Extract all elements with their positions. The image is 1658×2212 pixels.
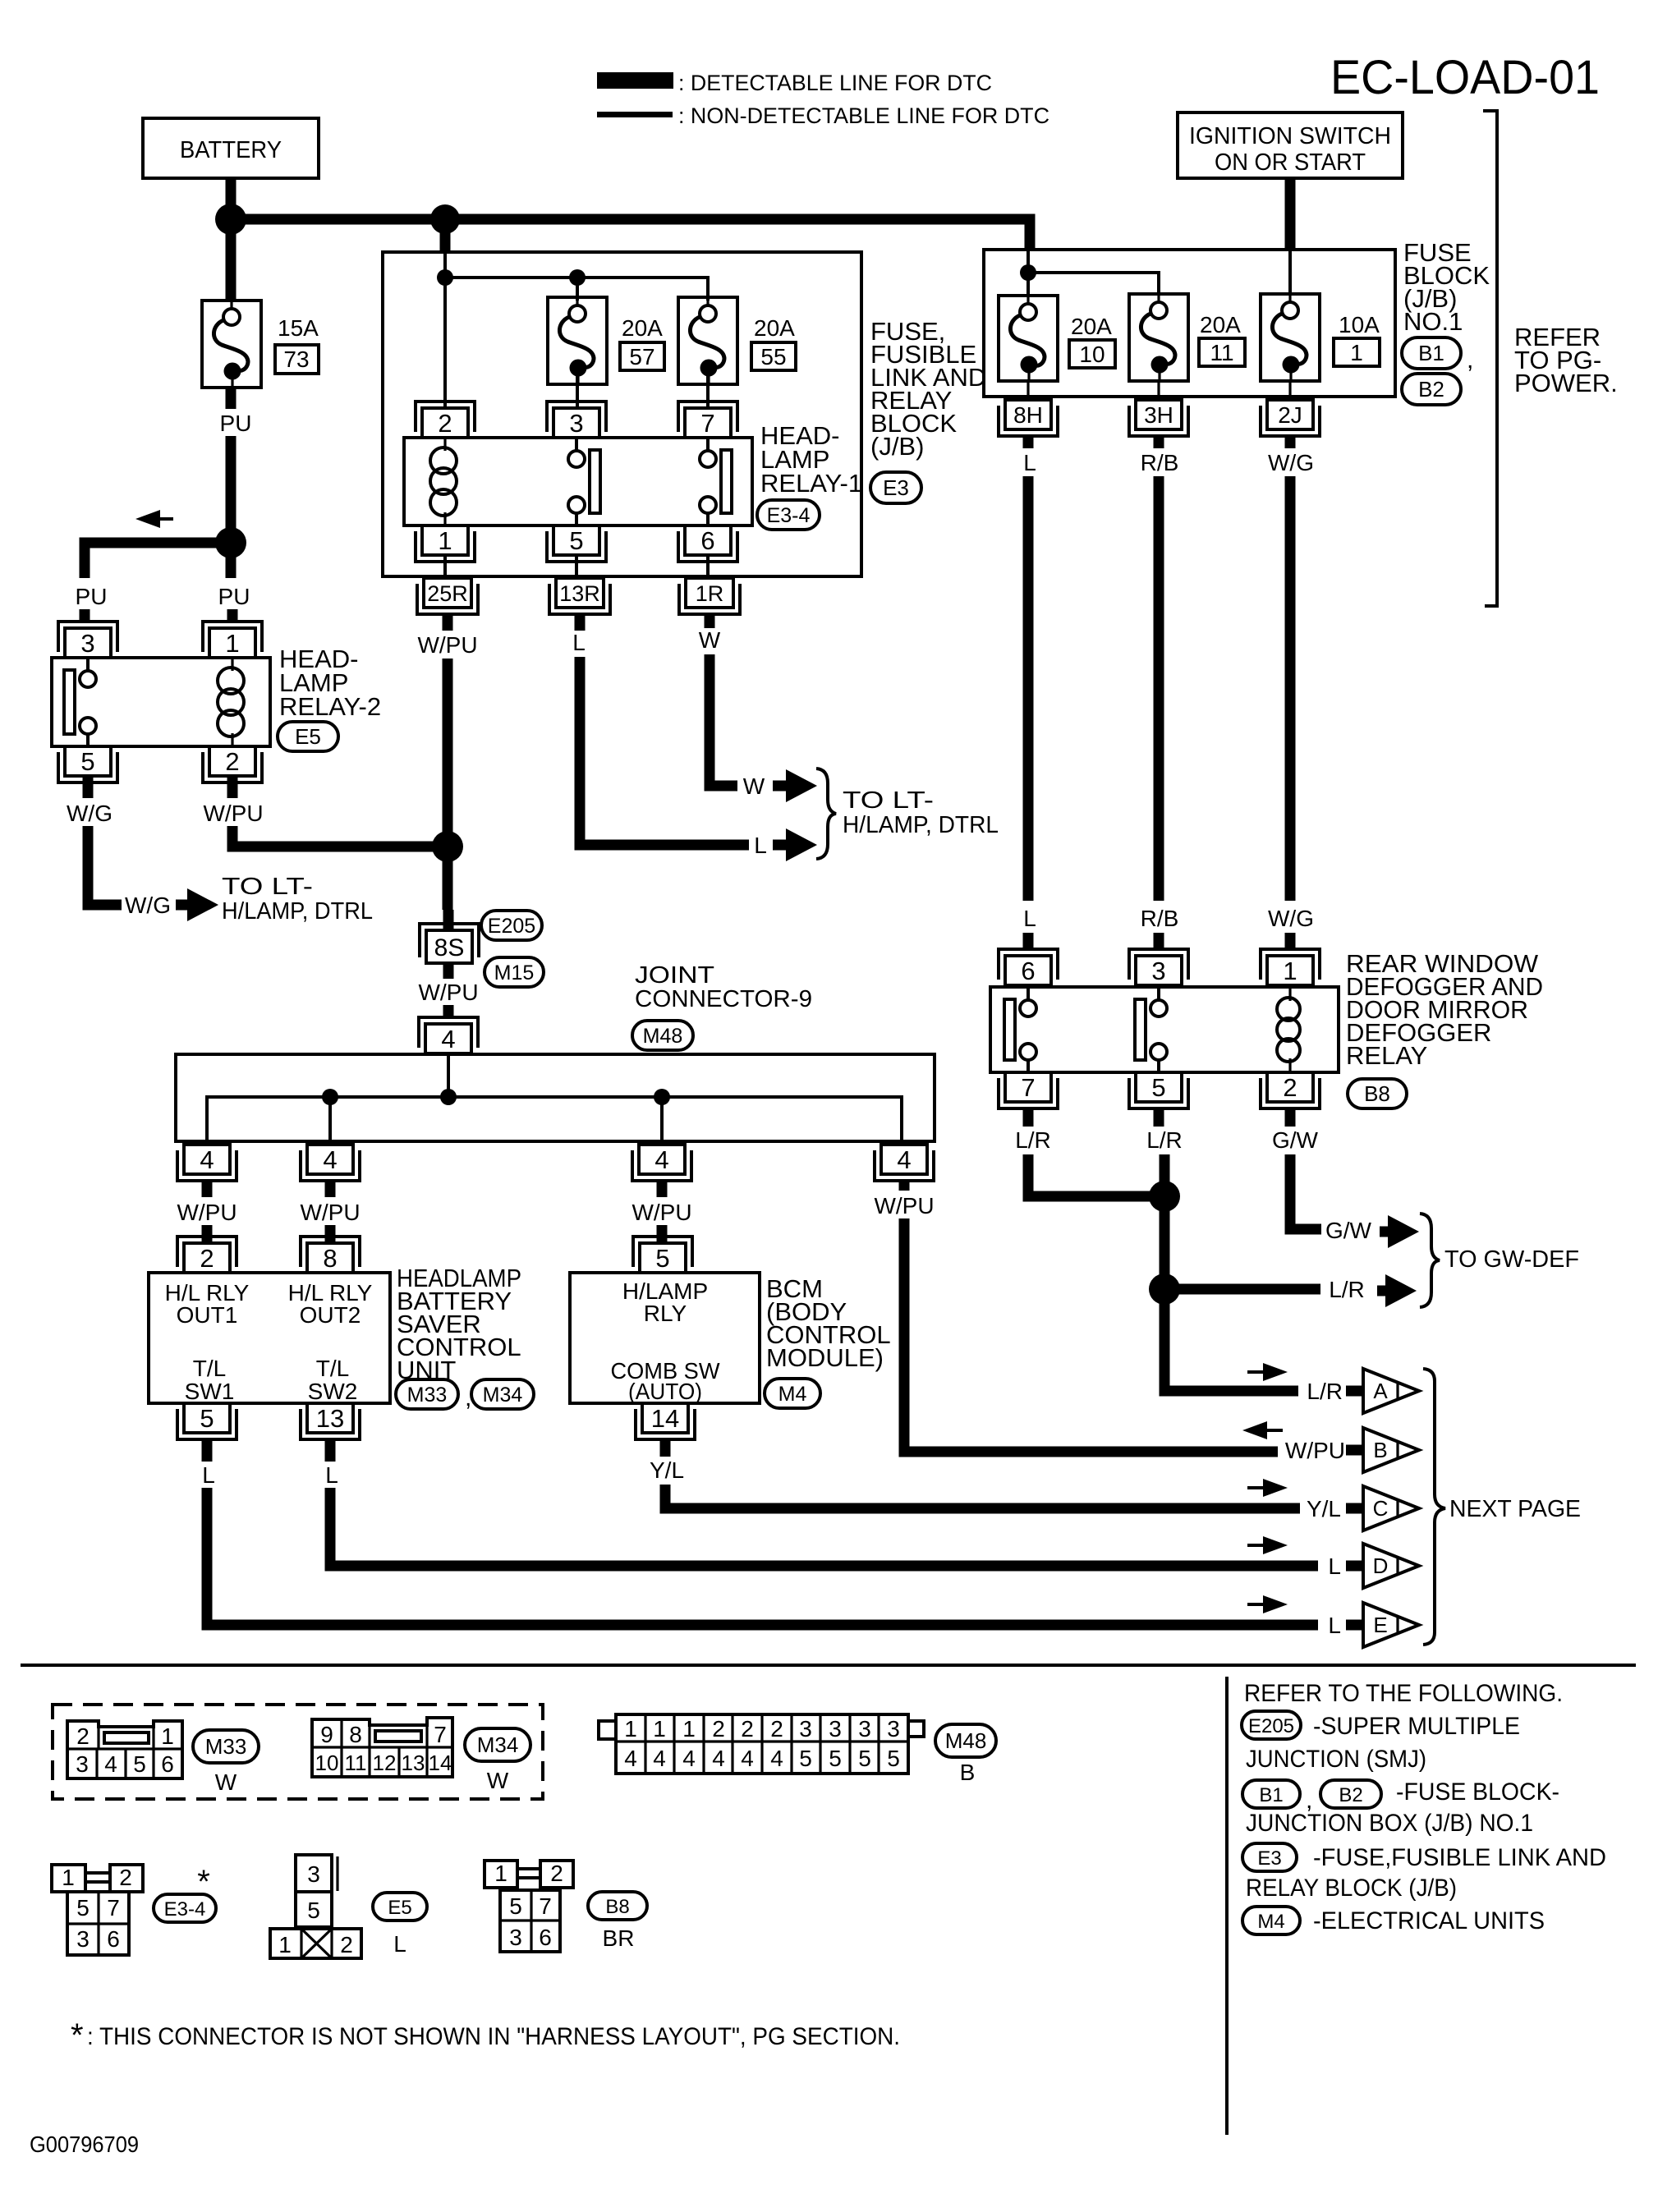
wire tap2 to pin 8 bbox=[325, 1181, 336, 1197]
connector view E3-4 bbox=[52, 1865, 85, 1892]
connector ref M33 view bbox=[193, 1730, 259, 1763]
svg-text:8: 8 bbox=[349, 1722, 362, 1747]
svg-text:SW2: SW2 bbox=[308, 1379, 358, 1404]
svg-text:E5: E5 bbox=[388, 1897, 411, 1919]
connector ref E3-4 bbox=[757, 500, 820, 530]
svg-text:-FUSE BLOCK-: -FUSE BLOCK- bbox=[1396, 1778, 1559, 1806]
svg-text:4: 4 bbox=[741, 1746, 754, 1771]
svg-text:5: 5 bbox=[829, 1746, 842, 1771]
svg-text:4: 4 bbox=[712, 1746, 725, 1771]
svg-text:E3: E3 bbox=[883, 475, 909, 500]
pin 5 defogger relay bbox=[1136, 1072, 1182, 1102]
svg-text:B1: B1 bbox=[1259, 1784, 1283, 1806]
pin 13 battery saver bbox=[307, 1403, 353, 1433]
svg-text:1R: 1R bbox=[696, 581, 724, 606]
svg-text:(J/B): (J/B) bbox=[870, 432, 924, 461]
wire L/R to arrow A bbox=[1164, 1388, 1298, 1391]
svg-text:2: 2 bbox=[200, 1244, 214, 1273]
svg-text:5: 5 bbox=[509, 1893, 522, 1919]
svg-text:4: 4 bbox=[441, 1025, 455, 1053]
brace TO LT-H/LAMP bbox=[816, 769, 836, 859]
svg-text:10A: 10A bbox=[1339, 312, 1380, 337]
svg-text:W: W bbox=[699, 627, 721, 653]
svg-text:W: W bbox=[215, 1769, 237, 1795]
wire tap4 W/PU to arrow B bbox=[899, 1181, 910, 1191]
svg-text:5: 5 bbox=[569, 526, 583, 555]
svg-text:B: B bbox=[1373, 1438, 1387, 1462]
svg-text:IGNITION SWITCH: IGNITION SWITCH bbox=[1189, 123, 1391, 149]
svg-text:OUT1: OUT1 bbox=[177, 1302, 238, 1328]
svg-text:2: 2 bbox=[76, 1723, 90, 1749]
connector view M48 bbox=[616, 1714, 908, 1774]
svg-text:CONNECTOR-9: CONNECTOR-9 bbox=[635, 986, 812, 1012]
wire W/PU to 8S bbox=[443, 910, 454, 930]
tap pin 4 out2 bbox=[307, 1145, 353, 1174]
svg-text:6: 6 bbox=[539, 1925, 552, 1950]
connector ref M34 unit bbox=[471, 1379, 534, 1409]
svg-text:L: L bbox=[202, 1462, 215, 1488]
connector ref B1 footer bbox=[1242, 1780, 1300, 1808]
svg-text:ON OR START: ON OR START bbox=[1215, 149, 1366, 176]
svg-text:5: 5 bbox=[76, 1895, 90, 1921]
svg-text:R/B: R/B bbox=[1141, 450, 1179, 475]
connector view M33 bbox=[67, 1721, 182, 1778]
svg-text:1: 1 bbox=[494, 1861, 508, 1886]
svg-text:: DETECTABLE LINE FOR DTC: : DETECTABLE LINE FOR DTC bbox=[678, 71, 992, 95]
pin 5 bcm bbox=[640, 1243, 686, 1273]
bracket refer to pg-power bbox=[1483, 111, 1497, 606]
svg-text:BR: BR bbox=[603, 1925, 635, 1951]
pin 13R bbox=[556, 578, 604, 608]
svg-text:BATTERY: BATTERY bbox=[180, 137, 282, 163]
bracket NEXT PAGE bbox=[1423, 1369, 1445, 1645]
svg-text:5: 5 bbox=[307, 1898, 320, 1923]
svg-text:Y/L: Y/L bbox=[650, 1457, 684, 1483]
svg-text:1: 1 bbox=[1283, 957, 1297, 985]
wire main feed bus bbox=[231, 219, 1030, 250]
pin 14 bcm bbox=[642, 1403, 688, 1433]
wire L vertical bbox=[1023, 476, 1034, 901]
pin 1 defogger relay bbox=[1267, 956, 1313, 985]
fuse F1 10A bbox=[1261, 294, 1320, 381]
svg-text:W/PU: W/PU bbox=[417, 632, 477, 658]
svg-text:2: 2 bbox=[119, 1865, 132, 1890]
svg-text:4: 4 bbox=[654, 1145, 668, 1174]
svg-text:E3-4: E3-4 bbox=[767, 504, 811, 527]
wire junction to E3 block bbox=[440, 219, 451, 252]
junction dot relay-2 branch bbox=[215, 527, 246, 558]
relay-2 contact bbox=[80, 671, 96, 687]
stub 1R down bbox=[705, 614, 715, 628]
dashed box M33 M34 bbox=[53, 1705, 543, 1799]
headlamp relay-1 box bbox=[404, 438, 752, 525]
legend: non-detectable line sample bbox=[597, 112, 673, 117]
svg-text:W/PU: W/PU bbox=[1285, 1438, 1345, 1463]
wire L/R pin7 to junction bbox=[1028, 1154, 1164, 1196]
svg-text:13R: 13R bbox=[559, 581, 600, 606]
svg-text:8S: 8S bbox=[434, 934, 465, 961]
connector ref E205 footer bbox=[1242, 1711, 1301, 1739]
connector view B8 bbox=[485, 1861, 517, 1888]
small arrow above C bbox=[1247, 1486, 1266, 1489]
page connector C bbox=[1346, 1503, 1362, 1514]
joint connector internal bus bbox=[207, 1053, 902, 1145]
svg-text:5: 5 bbox=[887, 1746, 900, 1771]
svg-text:1: 1 bbox=[278, 1932, 292, 1957]
page connector D bbox=[1346, 1561, 1362, 1572]
wire inside E3 top bus bbox=[445, 252, 708, 301]
svg-text:SW1: SW1 bbox=[185, 1379, 235, 1404]
stub PU to pin 3 bbox=[80, 609, 90, 622]
fuse number box 57 bbox=[620, 342, 664, 370]
svg-text:L: L bbox=[1023, 906, 1036, 931]
svg-text:6: 6 bbox=[1021, 957, 1035, 985]
junction dot E3 bus mid bbox=[569, 269, 586, 286]
svg-text:15A: 15A bbox=[278, 315, 319, 341]
connector ref B2 bbox=[1402, 374, 1461, 405]
wire G/W to arrow bbox=[1290, 1154, 1321, 1229]
pin 5 of relay-2 bbox=[65, 746, 111, 776]
defogger relay contact 3-5 bbox=[1150, 1000, 1167, 1017]
svg-text:13: 13 bbox=[402, 1751, 425, 1775]
svg-text:1: 1 bbox=[62, 1865, 75, 1890]
wire to relay-2 pin 1 bbox=[226, 543, 237, 578]
svg-text:4: 4 bbox=[682, 1746, 696, 1771]
connector ref E5 bbox=[278, 722, 338, 751]
fuse number box 73 bbox=[275, 345, 319, 374]
small arrow above B bbox=[1264, 1429, 1283, 1432]
svg-text:4: 4 bbox=[897, 1145, 911, 1174]
lead fuse11 to 3H bbox=[1157, 381, 1160, 400]
svg-text:W/PU: W/PU bbox=[203, 801, 263, 826]
svg-text:5: 5 bbox=[858, 1746, 871, 1771]
fuse F10 20A bbox=[999, 296, 1058, 381]
pin 8H bbox=[1005, 400, 1051, 429]
svg-text:B2: B2 bbox=[1418, 377, 1444, 402]
svg-text:RELAY BLOCK (J/B): RELAY BLOCK (J/B) bbox=[1246, 1875, 1457, 1902]
svg-text:W/PU: W/PU bbox=[300, 1200, 360, 1225]
svg-text:A: A bbox=[1373, 1379, 1388, 1403]
fuse fusible link and relay block box E3 bbox=[383, 252, 861, 576]
connector view M34 bbox=[312, 1718, 452, 1777]
svg-text:W/PU: W/PU bbox=[632, 1200, 691, 1225]
stub 3H down bbox=[1154, 436, 1164, 448]
svg-text:3: 3 bbox=[887, 1716, 900, 1742]
svg-text:3: 3 bbox=[829, 1716, 842, 1742]
svg-text:W/G: W/G bbox=[67, 801, 113, 826]
pin 5 of relay-1 bbox=[553, 525, 599, 555]
relay-1 coil bbox=[443, 438, 446, 451]
pin 3 of relay-1 bbox=[553, 408, 599, 438]
svg-text:PU: PU bbox=[218, 584, 250, 609]
svg-text:7: 7 bbox=[700, 409, 714, 438]
svg-text:EC-LOAD-01: EC-LOAD-01 bbox=[1330, 51, 1600, 104]
direction arrow left above relay-2 branch bbox=[157, 517, 173, 521]
defogger relay coil bbox=[1288, 987, 1291, 1001]
small arrow above E bbox=[1247, 1603, 1266, 1606]
separator line bbox=[21, 1664, 1636, 1667]
svg-text:E5: E5 bbox=[295, 724, 321, 749]
arrow L/R to GW-DEF bbox=[1377, 1286, 1387, 1296]
fuse F11 20A bbox=[1129, 294, 1188, 381]
svg-text:W/G: W/G bbox=[1268, 450, 1314, 475]
svg-text:10: 10 bbox=[1079, 342, 1105, 367]
pin 2 defogger relay bbox=[1267, 1072, 1313, 1102]
svg-text:RELAY-1: RELAY-1 bbox=[760, 469, 862, 498]
svg-text:REFER TO THE FOLLOWING.: REFER TO THE FOLLOWING. bbox=[1244, 1680, 1563, 1707]
svg-text:T/L: T/L bbox=[193, 1356, 226, 1381]
svg-text:4: 4 bbox=[323, 1145, 337, 1174]
pin 1 of relay-2 bbox=[209, 628, 255, 658]
connector ref B2 footer bbox=[1320, 1780, 1381, 1808]
wire L to arrow D bbox=[330, 1488, 1318, 1566]
svg-text:3: 3 bbox=[569, 409, 583, 438]
fuse number box 11 bbox=[1199, 338, 1245, 366]
svg-text:6: 6 bbox=[700, 526, 714, 555]
svg-text:3: 3 bbox=[1151, 957, 1165, 985]
svg-text:M34: M34 bbox=[483, 1384, 523, 1407]
connector ref B1 bbox=[1402, 337, 1461, 369]
pin 3H bbox=[1136, 400, 1182, 429]
junction dot L/R upper bbox=[1149, 1181, 1180, 1212]
fuse block J/B no.1 box bbox=[984, 250, 1395, 397]
svg-text:7: 7 bbox=[434, 1722, 447, 1747]
svg-text:M33: M33 bbox=[205, 1734, 247, 1759]
pin 2 battery saver bbox=[184, 1243, 230, 1273]
fuse number box 55 bbox=[751, 342, 796, 370]
svg-text:12: 12 bbox=[373, 1751, 397, 1775]
svg-text:M48: M48 bbox=[945, 1728, 987, 1753]
svg-text:7: 7 bbox=[539, 1893, 552, 1919]
headlamp relay-2 box bbox=[52, 658, 270, 746]
svg-text:2: 2 bbox=[438, 409, 452, 438]
svg-text:25R: 25R bbox=[427, 581, 468, 606]
svg-text:6: 6 bbox=[107, 1926, 120, 1952]
footer vertical divider bbox=[1225, 1677, 1229, 2135]
svg-text:10: 10 bbox=[315, 1751, 339, 1775]
svg-text:M4: M4 bbox=[778, 1383, 807, 1406]
svg-text:E3: E3 bbox=[1257, 1847, 1281, 1870]
svg-text:E205: E205 bbox=[1248, 1715, 1294, 1737]
wire battery junction to fuse 73 bbox=[226, 219, 237, 301]
small arrow above A bbox=[1247, 1370, 1266, 1374]
svg-text:: NON-DETECTABLE LINE FOR DTC: : NON-DETECTABLE LINE FOR DTC bbox=[678, 103, 1049, 128]
pin 1 of relay-1 bbox=[422, 525, 468, 555]
connector ref M4 bbox=[765, 1379, 820, 1408]
svg-text:E3-4: E3-4 bbox=[164, 1898, 206, 1921]
svg-text:-SUPER MULTIPLE: -SUPER MULTIPLE bbox=[1313, 1713, 1520, 1740]
wire tap3 to pin 5 bbox=[657, 1181, 668, 1197]
bcm box bbox=[570, 1273, 760, 1403]
svg-text:55: 55 bbox=[760, 344, 786, 369]
svg-text:B8: B8 bbox=[1364, 1081, 1390, 1106]
pin 8 battery saver bbox=[307, 1243, 353, 1273]
fuse number box 10 bbox=[1069, 340, 1115, 368]
svg-text:H/LAMP, DTRL: H/LAMP, DTRL bbox=[222, 898, 373, 925]
stub pin1 to 25R bbox=[443, 555, 447, 578]
joint connector-9 box bbox=[176, 1054, 935, 1141]
svg-text:2: 2 bbox=[712, 1716, 725, 1742]
svg-text:2: 2 bbox=[1283, 1073, 1297, 1102]
svg-text:W/G: W/G bbox=[1268, 906, 1314, 931]
wire fuse57 to pin 3 bbox=[576, 370, 579, 408]
stub pin7 down bbox=[1023, 1108, 1034, 1127]
pin 2 of relay-2 bbox=[209, 746, 255, 776]
page connector B bbox=[1346, 1445, 1362, 1456]
svg-text:4: 4 bbox=[104, 1751, 117, 1777]
svg-text:MODULE): MODULE) bbox=[766, 1343, 884, 1372]
wire L/R pin5 down bbox=[1160, 1154, 1170, 1393]
pin 1R bbox=[686, 578, 733, 608]
svg-text:3: 3 bbox=[509, 1925, 522, 1950]
svg-text:OUT2: OUT2 bbox=[300, 1302, 361, 1328]
connector ref B8 view bbox=[588, 1892, 647, 1920]
rear defogger relay box bbox=[990, 987, 1339, 1072]
svg-text:W: W bbox=[743, 773, 765, 799]
svg-text:11: 11 bbox=[345, 1751, 367, 1775]
svg-text:PU: PU bbox=[220, 411, 252, 436]
wire W/PU main bbox=[443, 659, 453, 910]
svg-text:1: 1 bbox=[225, 629, 239, 658]
relay-1 contact 3-5 bbox=[568, 451, 585, 467]
battery bbox=[143, 118, 319, 178]
wire W/G vertical bbox=[1285, 476, 1296, 901]
svg-text:2: 2 bbox=[741, 1716, 754, 1742]
pin 2 of relay-1 bbox=[422, 408, 468, 438]
svg-text:-FUSE,FUSIBLE LINK AND: -FUSE,FUSIBLE LINK AND bbox=[1313, 1844, 1606, 1871]
arrow G/W to GW-DEF bbox=[1380, 1227, 1389, 1237]
svg-text:2: 2 bbox=[340, 1932, 353, 1957]
connector ref M15 bbox=[485, 957, 544, 987]
junction dot E3 bus left bbox=[437, 269, 453, 286]
svg-text:3: 3 bbox=[307, 1861, 320, 1887]
junction dot battery feed bbox=[215, 204, 246, 235]
stub pin13 down bbox=[325, 1439, 336, 1462]
svg-text:1: 1 bbox=[682, 1716, 696, 1742]
svg-text:B1: B1 bbox=[1418, 341, 1444, 365]
stub 8H down bbox=[1023, 436, 1034, 448]
svg-text:73: 73 bbox=[283, 346, 309, 372]
stub pin6 to 1R bbox=[706, 555, 710, 578]
svg-text:11: 11 bbox=[1210, 340, 1233, 365]
svg-text:M34: M34 bbox=[477, 1732, 519, 1757]
svg-text:E: E bbox=[1373, 1613, 1387, 1637]
svg-text:13: 13 bbox=[316, 1404, 344, 1433]
stub 2J down bbox=[1285, 436, 1296, 448]
wire R/B vertical bbox=[1154, 476, 1164, 901]
fuse number box 1 bbox=[1334, 338, 1380, 366]
junction dot L/R lower bbox=[1149, 1274, 1180, 1305]
svg-text:57: 57 bbox=[629, 344, 654, 369]
svg-text:Y/L: Y/L bbox=[1307, 1496, 1341, 1521]
svg-text:M15: M15 bbox=[494, 961, 535, 984]
svg-text:RELAY: RELAY bbox=[1346, 1041, 1427, 1070]
connector ref E5 view bbox=[373, 1893, 427, 1921]
svg-text:JUNCTION BOX (J/B) NO.1: JUNCTION BOX (J/B) NO.1 bbox=[1246, 1810, 1533, 1837]
stub into pin 3 bbox=[1154, 933, 1164, 949]
svg-text:6: 6 bbox=[161, 1751, 174, 1777]
svg-text:20A: 20A bbox=[1200, 312, 1241, 337]
svg-text:-ELECTRICAL UNITS: -ELECTRICAL UNITS bbox=[1313, 1907, 1545, 1934]
svg-text:RELAY-2: RELAY-2 bbox=[279, 692, 381, 721]
svg-text:3H: 3H bbox=[1144, 402, 1173, 428]
stub pin14 down bbox=[660, 1439, 671, 1457]
stub pin5 down bbox=[1154, 1108, 1164, 1127]
stub 13R down bbox=[575, 614, 586, 631]
pin 7 defogger relay bbox=[1005, 1072, 1051, 1102]
page connector A bbox=[1346, 1386, 1362, 1397]
lead fuse10 to 8H bbox=[1026, 381, 1029, 400]
svg-text:5: 5 bbox=[1151, 1073, 1165, 1102]
svg-text:W/PU: W/PU bbox=[418, 980, 478, 1005]
svg-text:NO.1: NO.1 bbox=[1403, 307, 1463, 336]
svg-text:H/LAMP, DTRL: H/LAMP, DTRL bbox=[843, 812, 999, 838]
svg-text:2: 2 bbox=[770, 1716, 783, 1742]
svg-text:PU: PU bbox=[76, 584, 108, 609]
stub into pin 1 bbox=[1285, 933, 1296, 949]
svg-text:D: D bbox=[1373, 1553, 1389, 1578]
pin 4 joint connector top bbox=[425, 1024, 471, 1053]
stub into pin 6 bbox=[1023, 933, 1034, 949]
connector ref E3 footer bbox=[1242, 1843, 1297, 1871]
svg-text:(AUTO): (AUTO) bbox=[628, 1379, 702, 1404]
svg-text:G/W: G/W bbox=[1272, 1127, 1319, 1153]
wire W from 1R bbox=[710, 654, 737, 786]
tap pin 4 bcm bbox=[639, 1145, 685, 1174]
junction dot E3 feed bbox=[430, 204, 460, 234]
connector view E5 bbox=[296, 1855, 332, 1892]
pin 6 defogger relay bbox=[1005, 956, 1051, 985]
wire battery to junction bbox=[226, 178, 237, 215]
headlamp battery saver control unit box bbox=[149, 1273, 390, 1403]
junction dot J/B bus bbox=[1020, 264, 1036, 281]
svg-text:4: 4 bbox=[200, 1145, 214, 1174]
svg-text:14: 14 bbox=[429, 1751, 452, 1775]
svg-text:W/PU: W/PU bbox=[177, 1200, 237, 1225]
junction dot jc 8 bbox=[322, 1089, 338, 1105]
wire L from 13R bbox=[580, 657, 749, 845]
svg-text:3: 3 bbox=[76, 1926, 90, 1952]
svg-text:3: 3 bbox=[80, 629, 94, 658]
svg-text:L: L bbox=[1328, 1613, 1341, 1638]
wire branch to relay-2 pin 3 bbox=[85, 543, 231, 578]
svg-text:TO GW-DEF: TO GW-DEF bbox=[1444, 1246, 1579, 1273]
fuse F55 20A bbox=[678, 297, 737, 384]
svg-text:B8: B8 bbox=[605, 1896, 629, 1918]
stub pin2 down bbox=[1285, 1108, 1296, 1127]
svg-text:TO LT-: TO LT- bbox=[222, 874, 313, 900]
junction dot jc 5 bbox=[654, 1089, 670, 1105]
connector ref B8 bbox=[1348, 1079, 1407, 1108]
svg-text:14: 14 bbox=[651, 1404, 679, 1433]
svg-text:TO LT-: TO LT- bbox=[843, 787, 934, 814]
pin 2J bbox=[1267, 400, 1313, 429]
pin 7 of relay-1 bbox=[685, 408, 731, 438]
wire W/G from pin 5 bbox=[83, 776, 94, 798]
svg-text:G00796709: G00796709 bbox=[30, 2132, 139, 2157]
arrow L to LT-H/LAMP bbox=[773, 840, 788, 851]
svg-text:M33: M33 bbox=[407, 1384, 448, 1407]
wire 8S down bbox=[443, 963, 454, 979]
svg-text:W/G: W/G bbox=[125, 893, 171, 918]
svg-text:9: 9 bbox=[320, 1722, 333, 1747]
wire Y/L to arrow C bbox=[665, 1485, 1300, 1508]
ignition switch box bbox=[1178, 112, 1403, 178]
svg-text:L: L bbox=[1023, 450, 1036, 475]
svg-text:2J: 2J bbox=[1278, 402, 1302, 428]
svg-text:JOINT: JOINT bbox=[635, 962, 714, 989]
svg-text:L/R: L/R bbox=[1146, 1127, 1183, 1153]
